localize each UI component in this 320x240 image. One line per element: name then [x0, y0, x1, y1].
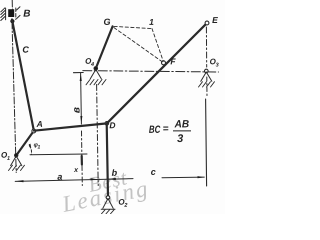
- svg-text:1: 1: [149, 17, 154, 27]
- svg-text:1: 1: [7, 156, 10, 162]
- svg-text:A: A: [36, 119, 43, 129]
- link D to slider O2: [107, 123, 108, 197]
- support O4 triangle: [90, 70, 101, 79]
- support O4 hatching: [86, 80, 106, 85]
- guide wall right of slider B (dashed): [16, 7, 20, 20]
- svg-text:a: a: [57, 172, 62, 182]
- formula fraction bar: [173, 130, 191, 132]
- pin A (white center): [32, 129, 36, 133]
- dimension v vertical line: [80, 73, 83, 124]
- crank O4-G: [96, 26, 113, 68]
- crank O1-A: [16, 131, 34, 156]
- extension line below O3: [206, 99, 207, 186]
- svg-text:x: x: [73, 167, 79, 174]
- bottom dimension line a (left of slider axis): [15, 179, 133, 182]
- pin D (white center): [105, 122, 109, 126]
- svg-text:3: 3: [216, 63, 219, 69]
- pivot O1: [15, 154, 18, 157]
- dimension v arrow down: [80, 116, 82, 123]
- extension of v-line below AD (dash-dot with heavy dash): [81, 131, 84, 186]
- horizontal reference line through O1: [30, 153, 87, 156]
- dashed link-1 outline: G to F: [114, 28, 162, 62]
- guide wall left of slider B: [1, 8, 6, 21]
- support O1 triangle: [11, 156, 22, 166]
- watermark Best Leasing: [59, 165, 151, 217]
- support O2 hatching: [102, 210, 115, 214]
- svg-text:AB: AB: [174, 118, 190, 130]
- svg-text:C: C: [22, 45, 29, 55]
- angle phi1 arrowhead: [29, 144, 32, 148]
- angle phi1 dashed arc at O1: [29, 146, 31, 155]
- dimension c right arrow: [198, 176, 205, 178]
- centerline below O3: [206, 77, 208, 97]
- support O1 hatching: [9, 165, 25, 170]
- dimension v arrow up: [80, 73, 82, 81]
- dimension a left arrow: [15, 180, 23, 182]
- pivot O2: [106, 196, 110, 200]
- pin E (white center): [205, 21, 209, 25]
- svg-text:F: F: [170, 56, 176, 66]
- svg-text:BC: BC: [149, 124, 161, 136]
- horizontal axis line O4-O3 (dash-dot): [83, 71, 219, 72]
- pivot O4: [94, 67, 98, 71]
- centerline through O4 extended down (dash-dot): [97, 85, 99, 186]
- pin joint below slider B: [10, 19, 14, 23]
- dashed link-1 outline: bend to F: [152, 29, 163, 62]
- pivot O3: [205, 69, 209, 73]
- svg-text:E: E: [212, 15, 218, 25]
- svg-text:1: 1: [37, 145, 40, 151]
- support O3 hatching: [199, 82, 215, 87]
- dimension a right arrow (to O4 axis): [91, 178, 98, 180]
- dimension line c (right part): [162, 176, 204, 179]
- svg-text:b: b: [112, 168, 118, 178]
- svg-text:G: G: [103, 17, 110, 27]
- slider B block: [8, 9, 14, 17]
- heavy dash / arrow on that line: [81, 156, 83, 165]
- link D-E (through F): [107, 23, 207, 123]
- support O3 triangle: [201, 72, 212, 81]
- centerline E-O3 (dash-dot): [205, 27, 207, 67]
- support O2 triangle: [101, 199, 115, 210]
- svg-text:в: в: [72, 107, 83, 113]
- centerline through B and O1: [12, 0, 16, 173]
- svg-text:c: c: [151, 167, 156, 177]
- pin F (white center): [162, 61, 166, 65]
- svg-text:=: =: [163, 124, 169, 135]
- dashed link-1 outline: G to bend point: [114, 26, 152, 28]
- svg-text:D: D: [109, 120, 115, 130]
- link A-D: [34, 123, 107, 130]
- svg-text:2: 2: [123, 203, 127, 209]
- svg-text:4: 4: [90, 62, 94, 68]
- dimension b outside arrow (right of slider axis): [108, 178, 116, 180]
- link B-A (point C on it): [12, 20, 34, 131]
- svg-text:B: B: [23, 9, 30, 20]
- dimension v: top tee bar at axis level: [74, 72, 84, 74]
- svg-text:3: 3: [177, 133, 183, 145]
